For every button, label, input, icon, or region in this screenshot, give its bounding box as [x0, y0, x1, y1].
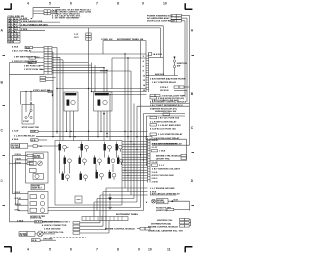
right rows below strip [125, 188, 180, 196]
frame corner bottom-left [4, 247, 12, 253]
bottom center strip connector [82, 217, 128, 221]
bottom right rows [146, 199, 191, 229]
svg-text:W-L: W-L [29, 62, 34, 64]
vertical drop x57 [56, 48, 58, 134]
svg-text:9: 9 [142, 2, 144, 6]
svg-text:(SHORT PIN): (SHORT PIN) [156, 159, 170, 161]
svg-text:7: 7 [96, 248, 98, 252]
right margin vertical wire 2 [186, 18, 188, 102]
wire from table row5 [20, 29, 45, 31]
callout bracket [33, 8, 60, 18]
svg-text:2 B-R IGNITER (IIA) NOISE FILT: 2 B-R IGNITER (IIA) NOISE FILTER [150, 77, 186, 80]
svg-text:FILTER: FILTER [157, 202, 165, 204]
svg-text:1 W-L FUSIBLE LINK AM1: 1 W-L FUSIBLE LINK AM1 [21, 23, 48, 26]
svg-text:L-R: L-R [14, 39, 18, 41]
svg-text:GROUND: GROUND [43, 239, 53, 241]
stack left wires [40, 66, 44, 70]
svg-text:RELAY: RELAY [34, 156, 42, 159]
right margin vertical wire [189, 15, 191, 145]
svg-text:3 L-R DEFOGGER RELAY: 3 L-R DEFOGGER RELAY [150, 120, 177, 123]
svg-text:(IGNITION): (IGNITION) [156, 210, 167, 212]
right middle label rows [137, 97, 190, 146]
svg-text:11: 11 [167, 248, 171, 252]
frame corner top-left [4, 3, 12, 9]
svg-text:6: 6 [70, 2, 72, 6]
left grid letters [1, 29, 4, 184]
svg-text:2 W-B: 2 W-B [51, 13, 58, 15]
svg-text:3 DATA LINK CONNECTOR 1: 3 DATA LINK CONNECTOR 1 [40, 221, 70, 224]
svg-text:W-B: W-B [26, 47, 31, 49]
staircase risers [94, 188, 106, 230]
cigarette lighter component [19, 231, 55, 237]
bottom grid numbers [27, 248, 171, 252]
relay 1 input rows [10, 154, 34, 205]
stack exit wires right [52, 57, 107, 73]
frame corner top-right [185, 3, 193, 9]
right grid ticks [192, 56, 195, 206]
crossing bus y88.5 [57, 88, 147, 90]
J/B pin strip upper [146, 54, 149, 93]
svg-text:INSTRUMENT PANEL J/B: INSTRUMENT PANEL J/B [117, 38, 144, 41]
loop-around lines bottom [48, 208, 144, 211]
svg-text:FILTER: FILTER [20, 235, 28, 237]
svg-text:8: 8 [117, 2, 119, 6]
right margin vertical wire 3 [184, 21, 186, 98]
svg-text:STARTER RELAY (W/ A/T): STARTER RELAY (W/ A/T) [150, 108, 177, 111]
junction dots misc [88, 88, 89, 89]
svg-text:3 W-B: 3 W-B [21, 29, 28, 31]
svg-text:CHARCOAL CANISTER SOL. VSV: CHARCOAL CANISTER SOL. VSV [148, 230, 184, 233]
long feeder to ignition switch [44, 53, 146, 55]
J/B internal bus [149, 57, 164, 59]
svg-text:4 W-B: 4 W-B [12, 138, 19, 141]
staircase corners to bottom lines [94, 188, 137, 202]
svg-text:STOP LIGHT SW: STOP LIGHT SW [33, 90, 51, 92]
svg-text:FILTER: FILTER [12, 147, 20, 149]
svg-text:W-B: W-B [174, 199, 179, 201]
top right connector row 2 [147, 17, 187, 20]
svg-text:COMB. SW: COMB. SW [101, 39, 113, 41]
left grid ticks [3, 56, 6, 206]
connector table [8, 18, 21, 44]
svg-text:A/C AMPLIFIER ASSY: A/C AMPLIFIER ASSY [147, 17, 170, 20]
svg-text:MAIN RLY: MAIN RLY [32, 187, 43, 190]
vertical drop x91.5 [91, 63, 93, 92]
ignition switch [173, 60, 175, 62]
left relay box 2 [28, 192, 48, 214]
inline connector boxes x88.5 [86, 33, 91, 35]
ST2 row [160, 86, 190, 89]
svg-text:3 L-W HORN RELAY: 3 L-W HORN RELAY [14, 134, 35, 137]
IG2 row [160, 90, 187, 92]
connecting rungs box to strip [122, 142, 148, 181]
svg-text:3 W-R TAILLIGHT RELAY: 3 W-R TAILLIGHT RELAY [154, 137, 180, 140]
crossing bus y91.5 [92, 91, 147, 93]
ignition sw box [103, 41, 146, 104]
svg-text:4 B-R ENGINE CONTROL MODULE: 4 B-R ENGINE CONTROL MODULE [150, 101, 187, 104]
svg-text:PARK/NEUTRAL SW: PARK/NEUTRAL SW [155, 110, 177, 113]
relay row 3 [62, 172, 116, 180]
right rows beside strip [150, 139, 187, 183]
svg-text:3 B-Y IGNITION COIL: 3 B-Y IGNITION COIL [42, 232, 64, 234]
svg-text:4: 4 [27, 2, 29, 6]
relay pin stubs [60, 142, 121, 152]
bundle verticals right of box [100, 70, 131, 72]
vertical drop x107 [106, 70, 108, 92]
svg-text:2 ACC CUT RELAY: 2 ACC CUT RELAY [12, 50, 32, 53]
relay row 2 [64, 158, 123, 164]
svg-text:W-B: W-B [32, 240, 37, 242]
callout connector boxes [44, 10, 50, 12]
crossing bus y94.5 [110, 94, 147, 96]
svg-text:2 L-Y: 2 L-Y [159, 165, 165, 167]
svg-text:IGNITION COIL: IGNITION COIL [157, 220, 173, 222]
svg-text:(IGNITION): (IGNITION) [30, 218, 41, 220]
left mid row 3 [14, 56, 44, 60]
svg-text:2 G-W: 2 G-W [12, 130, 19, 132]
svg-text:ENGINE CONTROL MODULE: ENGINE CONTROL MODULE [148, 227, 178, 229]
svg-text:AM2 B-R: AM2 B-R [155, 73, 165, 76]
starter relay box [64, 92, 78, 141]
svg-text:1K 5: 1K 5 [74, 37, 79, 39]
svg-text:4 CHECK CONNECTOR: 4 CHECK CONNECTOR [42, 224, 67, 227]
vertical drop x63 [62, 60, 64, 141]
bottom left feeder row [10, 221, 59, 224]
relay row 1 [59, 144, 123, 150]
svg-text:6: 6 [70, 248, 72, 252]
stack labels [12, 60, 43, 71]
noise filter label row [11, 144, 60, 149]
left cluster: stop light switch feeders [21, 91, 53, 93]
frame corner bottom-right [185, 247, 193, 253]
svg-text:2 L-W A/C AMPLIFIER: 2 L-W A/C AMPLIFIER [158, 124, 181, 127]
right grid letters [191, 29, 194, 184]
svg-text:5: 5 [49, 248, 51, 252]
top grid numbers [27, 2, 167, 6]
svg-text:ST2 B-Y: ST2 B-Y [160, 87, 169, 89]
center junction box [55, 141, 122, 206]
svg-text:8: 8 [117, 248, 119, 252]
junction dots row [56, 131, 57, 132]
svg-text:2 L-Y ENGINE GROUND: 2 L-Y ENGINE GROUND [150, 188, 175, 190]
svg-text:INSTRUMENT PANEL: INSTRUMENT PANEL [116, 213, 139, 216]
bus wire lower [20, 28, 161, 58]
bus wire upper [20, 26, 163, 76]
connector stack [44, 46, 52, 74]
svg-text:2 B-L IGNITION MAIN RELAY: 2 B-L IGNITION MAIN RELAY [152, 143, 182, 146]
left relay box 1 [26, 152, 49, 183]
svg-text:STOP: STOP [23, 121, 29, 123]
relay 2 input rows [13, 192, 29, 211]
svg-text:IG2 B-W: IG2 B-W [160, 90, 169, 92]
svg-text:4 W-B: 4 W-B [12, 45, 19, 48]
ignition switch arrow [173, 57, 175, 60]
svg-text:7: 7 [96, 2, 98, 6]
row 2 [14, 134, 148, 137]
svg-text:5: 5 [49, 2, 51, 6]
center-box right terminal strip [148, 138, 151, 183]
strip pin numbers [143, 56, 146, 92]
svg-text:2 B-O: 2 B-O [152, 178, 158, 180]
row 3 [12, 138, 47, 142]
stop light switch box [22, 105, 34, 125]
EFI main relay box [94, 92, 113, 137]
1J row [150, 95, 185, 98]
svg-text:8 B-L: 8 B-L [15, 209, 21, 211]
relay box 2 label [30, 216, 45, 220]
svg-text:4 W-R COOLING FAN: 4 W-R COOLING FAN [152, 174, 174, 177]
svg-text:2 B-Y IGNITION COIL ASSY: 2 B-Y IGNITION COIL ASSY [152, 168, 181, 171]
bottom rows left labels [40, 221, 109, 235]
bottom row with box [32, 239, 57, 242]
left long vertical wire [9, 63, 11, 223]
condenser symbol [108, 194, 112, 210]
svg-text:DISTRIBUTOR (IIA): DISTRIBUTOR (IIA) [151, 222, 171, 225]
long left feeder wire [10, 73, 45, 75]
svg-text:10: 10 [163, 2, 167, 6]
svg-text:W-B: W-B [31, 140, 36, 142]
small breaker in box [75, 196, 82, 203]
row to right: stop feed [12, 130, 148, 133]
svg-text:2 W-B NOISE FILTER (IG): 2 W-B NOISE FILTER (IG) [158, 98, 184, 100]
svg-text:STOP LIGHT SW: STOP LIGHT SW [22, 127, 40, 129]
svg-text:4: 4 [27, 248, 29, 252]
svg-text:1A 4 W-B: 1A 4 W-B [153, 53, 163, 56]
left mid row 2 [12, 50, 53, 53]
svg-text:9: 9 [138, 248, 140, 252]
svg-text:ENGINE CTRL MODULE: ENGINE CTRL MODULE [156, 155, 181, 157]
wire from table row1 [20, 19, 29, 21]
svg-text:4 G-W ECU-IG FUSE 10A: 4 G-W ECU-IG FUSE 10A [150, 128, 176, 131]
svg-text:3 L-R: 3 L-R [152, 147, 158, 149]
svg-text:2 B-Y A/C FUSE 10A: 2 B-Y A/C FUSE 10A [158, 117, 179, 120]
AM2 row [150, 99, 190, 103]
svg-text:2 EFI FUSE 15A: 2 EFI FUSE 15A [24, 64, 41, 67]
relay box 1 label [31, 184, 44, 190]
vertical drop x53 [52, 52, 54, 137]
svg-text:10: 10 [148, 248, 152, 252]
svg-text:2 W-B GAUGE FUSE: 2 W-B GAUGE FUSE [21, 20, 43, 23]
dash-dot line [50, 237, 86, 239]
svg-text:2 W-B GROUND: 2 W-B GROUND [44, 229, 61, 231]
top right connector row 3 [147, 20, 185, 23]
vertical drop x104 [103, 68, 105, 93]
left mid row 1 [12, 45, 57, 49]
circuit open relay row [10, 62, 45, 64]
notes text block [52, 8, 92, 19]
wire from table row2 [20, 21, 60, 23]
svg-text:ENGINE CONTROL MODULE: ENGINE CONTROL MODULE [105, 228, 135, 230]
arrow into center box [103, 111, 105, 113]
vertical drop x60 [59, 57, 61, 140]
svg-text:1 W-B: 1 W-B [159, 151, 166, 153]
svg-text:2 B-R CIRCUIT OPEN RELAY: 2 B-R CIRCUIT OPEN RELAY [150, 193, 180, 196]
svg-text:3 G-R: 3 G-R [152, 172, 158, 174]
svg-text:5 : W/ THEFT DETERRENT: 5 : W/ THEFT DETERRENT [52, 17, 80, 19]
small inline boxes left of starter relay [40, 76, 46, 78]
vertical drop x95 [94, 65, 96, 92]
svg-text:POWER STEERING ECU: POWER STEERING ECU [147, 15, 173, 17]
svg-text:3 W-B: 3 W-B [152, 181, 159, 183]
svg-text:2 B-Y THEFT DETERRENT ECU: 2 B-Y THEFT DETERRENT ECU [150, 105, 183, 107]
callout arrow [30, 17, 33, 19]
top right connector row 1 [147, 14, 190, 17]
svg-text:3 B-Y STARTER RELAY: 3 B-Y STARTER RELAY [152, 81, 177, 84]
vertical drop x88.5 [88, 28, 90, 141]
svg-text:2 G-R STARTER RELAY: 2 G-R STARTER RELAY [158, 133, 183, 136]
1J cells [149, 53, 152, 56]
internal verticals in center box [60, 150, 117, 173]
